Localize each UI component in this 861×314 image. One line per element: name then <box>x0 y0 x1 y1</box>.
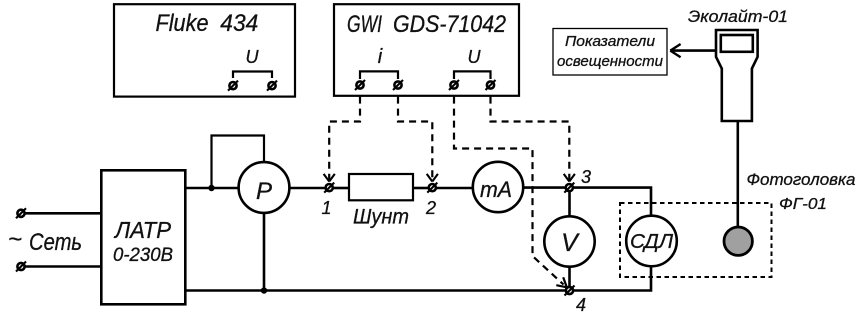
shunt resistor Шунт <box>349 174 413 229</box>
wire ЛАТР to P (top) <box>186 187 239 190</box>
svg-text:GDS-71042: GDS-71042 <box>393 11 506 38</box>
svg-text:434: 434 <box>220 10 258 37</box>
svg-text:2: 2 <box>425 198 436 218</box>
svg-text:Fluke: Fluke <box>156 10 209 37</box>
bottom rail node4 to СДЛ <box>574 267 651 291</box>
dashed lead GWI i-left to node 1 <box>324 97 360 182</box>
svg-text:Показатели: Показатели <box>565 33 656 50</box>
dashed lead GWI U-right to node 3 <box>491 97 575 182</box>
autotransformer ЛАТР 0-230В <box>101 170 185 304</box>
svg-text:СДЛ: СДЛ <box>630 231 673 253</box>
svg-text:GWI: GWI <box>347 11 382 38</box>
junction dot at P tap <box>208 185 214 191</box>
terminal GWI i-right <box>393 80 403 90</box>
svg-text:0-230В: 0-230В <box>113 245 173 266</box>
svg-text:U: U <box>246 47 260 67</box>
svg-text:ФГ-01: ФГ-01 <box>779 196 827 213</box>
terminal mains top <box>16 208 26 218</box>
photohead ФГ-01 sensor <box>724 227 752 255</box>
svg-text:V: V <box>561 229 580 257</box>
dashed lead GWI U-left to node 4 <box>454 97 567 288</box>
wattmeter P <box>239 162 290 213</box>
svg-text:1: 1 <box>321 198 331 218</box>
svg-text:освещенности: освещенности <box>557 53 664 70</box>
dashed lead GWI i-right to node 2 <box>398 97 438 182</box>
bottom rail wire <box>186 289 566 292</box>
instrument box Fluke 434 <box>114 4 295 96</box>
LED lamp СДЛ <box>626 216 677 267</box>
svg-text:Фотоголовка: Фотоголовка <box>747 170 856 189</box>
luxmeter Эколайт-01 body <box>716 30 758 121</box>
svg-text:Сеть: Сеть <box>29 229 82 256</box>
wire P voltage loop <box>212 136 265 189</box>
annotation box Показатели освещенности <box>553 29 667 76</box>
wire node 1 to shunt <box>334 187 350 190</box>
terminal mains bottom <box>16 262 26 272</box>
node 1 <box>324 183 334 193</box>
wire P to node 1 <box>290 187 325 190</box>
svg-text:P: P <box>256 178 272 205</box>
svg-text:Шунт: Шунт <box>353 206 409 229</box>
node 2 <box>427 183 437 193</box>
terminal GWI i-left <box>355 80 365 90</box>
voltmeter V <box>544 216 594 266</box>
svg-text:~: ~ <box>8 226 22 253</box>
milliammeter mA <box>473 162 523 212</box>
wire luxmeter to photohead <box>736 121 739 227</box>
terminal Fluke U-left <box>228 81 238 91</box>
wire shunt to node 2 <box>413 187 428 190</box>
wire node 2 to mA <box>437 187 472 190</box>
node 3 <box>564 183 574 193</box>
node 4 <box>565 286 575 296</box>
bracket U (GWI) <box>454 71 491 79</box>
svg-text:Эколайт-01: Эколайт-01 <box>688 7 788 26</box>
wire V to node 4 <box>568 267 571 287</box>
svg-text:ЛАТР: ЛАТР <box>113 217 172 243</box>
terminal Fluke U-right <box>267 81 277 91</box>
terminal GWI U-left <box>449 80 459 90</box>
wire node 3 to V <box>568 192 571 217</box>
terminal GWI U-right <box>486 80 496 90</box>
svg-text:mA: mA <box>480 177 512 202</box>
svg-text:3: 3 <box>581 167 591 187</box>
svg-text:i: i <box>378 46 383 68</box>
wire node 3 to СДЛ top <box>574 188 651 216</box>
svg-text:4: 4 <box>576 295 586 314</box>
bracket i (GWI) <box>360 71 398 79</box>
instrument box GWI GDS-71042 <box>334 4 519 96</box>
wire mains top to ЛАТР <box>25 212 103 215</box>
junction dot bottom rail <box>261 287 267 293</box>
svg-text:U: U <box>468 47 482 67</box>
wire P bottom to bottom rail <box>263 213 266 290</box>
wire mA to node 3 <box>524 186 565 189</box>
wire mains bottom to ЛАТР <box>25 265 103 268</box>
arrow from Эколайт-01 to annotation box <box>670 44 715 57</box>
bracket U (Fluke) <box>233 72 272 79</box>
dashed enclosure lamp+photohead <box>620 203 772 277</box>
